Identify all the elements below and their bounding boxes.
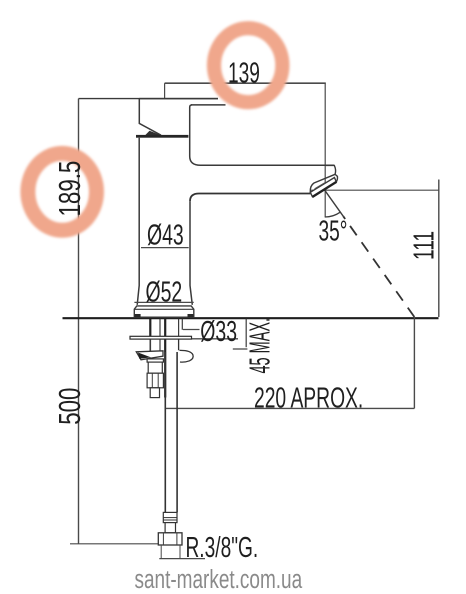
supply hose right edge [176,352,178,512]
mounting nut flat piece [147,359,163,362]
countertop line [63,317,439,319]
cartridge collar (thick) [136,135,188,138]
mounting hex nut [147,373,163,388]
base inner line [134,308,194,310]
text O43 [147,220,184,252]
base right foot [188,314,194,317]
svg-text:189.5: 189.5 [52,161,86,217]
svg-text:500: 500 [52,388,86,425]
O33 underline [192,338,238,340]
aerator housing top edge [310,174,335,192]
shank line [159,319,161,337]
threaded rod (thick, continues down) [164,319,166,398]
shank outer right line [181,319,183,330]
dimension line 189.5/500 (left vertical) [78,99,80,544]
aerator face bottom thick edge [313,182,337,197]
label leader line under O52 [134,301,193,303]
text O33 [200,316,237,348]
under-counter shank stud left (thick) [149,319,151,337]
handle underside dark wedge [145,131,162,136]
mounting bracket left angled piece [136,351,163,360]
supply hose left edge [164,352,166,512]
extension line 139 left [164,83,166,98]
body right edge below spout [190,201,192,305]
highlight ring around 139 [214,28,282,102]
svg-text:45 MAX.: 45 MAX. [243,318,276,374]
text R.3/8"G. [186,532,259,564]
dashed water stream line at 35 degrees [343,216,414,317]
end nut R3/8 [158,533,182,545]
highlight ring around 189.5 [28,153,97,230]
label leader line under O43 [141,247,189,249]
text 139 [228,58,260,90]
horizontal reference line from aerator to 111 dimension [310,189,439,191]
dimension line 139 (top horizontal) [165,82,326,84]
aerator inner detail line [315,183,325,189]
nut tip [150,388,159,398]
svg-text:Ø43: Ø43 [147,220,184,252]
aerator face tilted rectangle [310,178,336,197]
text 220 APROX [254,383,363,415]
spout top edge [200,164,334,166]
mounting washer plate [130,336,192,339]
top tick of 189.5 dimension merging into handle top [79,98,219,100]
svg-text:Ø52: Ø52 [146,277,183,309]
text 189.5 (rotated) [52,161,86,217]
dimension line 220 APROX [166,407,415,409]
45 MAX dimension vertical [245,319,247,347]
svg-text:139: 139 [228,58,260,90]
text 45 MAX (rotated) [243,318,276,374]
35 degree solid ray from vertex [325,190,344,216]
faucet handle top line [139,98,218,100]
mounting nut upper block [148,362,162,373]
end nut facets [162,533,164,545]
svg-text:111: 111 [409,231,441,260]
base left foot [135,314,141,317]
body left edge [137,138,139,305]
underline of R.3/8"G. [159,558,205,560]
faucet base [134,306,194,317]
spout bottom edge with fillet into body [190,194,310,202]
crimp ridges [163,517,177,519]
hose crimp block [163,512,177,522]
upper block top edge [191,104,226,106]
svg-text:220 APROX.: 220 APROX. [254,383,363,415]
spout tip end cap [326,165,338,182]
svg-text:Ø33: Ø33 [200,316,237,348]
text 35 degrees [319,216,348,248]
right vertical extension at x=414.5 [413,317,415,408]
upper body right edge with fillet into spout top [190,105,201,165]
handle left edge [139,99,161,136]
hose neck [165,523,175,533]
35 degree arc [325,212,341,217]
text O52 [146,277,183,309]
svg-text:35°: 35° [319,216,348,248]
watermark sant-market.com.ua [135,564,303,594]
45 MAX bottom tick [233,348,248,350]
bracket right hook [179,339,194,362]
text 500 (rotated) [52,388,86,425]
text 111 (rotated) [409,231,441,260]
bottom tick of 500 dimension [70,543,158,545]
dimension line 111 (right vertical) [438,180,440,318]
hex facet lines [151,373,153,388]
leader line to O33 [183,329,200,331]
extension line 139 right (down through aerator to angle vertex) [324,83,326,217]
bracket dark wedge [138,353,151,359]
thread extent lines below nut [160,545,162,558]
svg-text:R.3/8"G.: R.3/8"G. [186,532,259,564]
studs between washer and bracket [149,339,151,351]
shank right line [178,319,180,337]
svg-text:sant-market.com.ua: sant-market.com.ua [135,564,303,594]
